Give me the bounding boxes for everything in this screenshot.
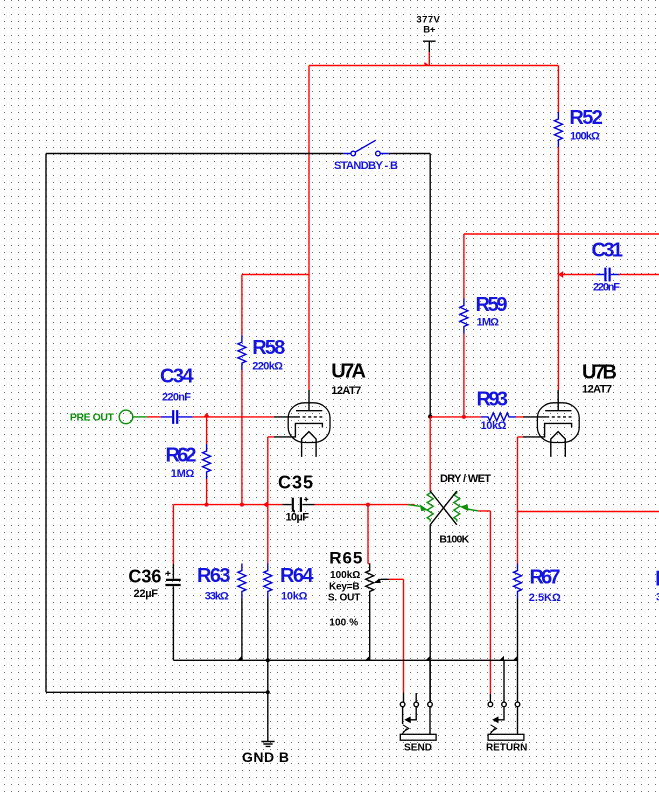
connector SEND jack	[400, 660, 436, 740]
wire U7B out right	[518, 511, 659, 513]
wire standby left	[46, 153, 343, 155]
svg-text:220nF: 220nF	[593, 281, 620, 293]
svg-text:1MΩ: 1MΩ	[477, 317, 500, 329]
svg-text:100kΩ: 100kΩ	[570, 131, 600, 143]
svg-text:C31: C31	[592, 240, 624, 262]
junction R65 bus	[365, 656, 369, 660]
power terminal B+ 377V	[423, 41, 436, 52]
connector RETURN jack	[488, 660, 524, 740]
wire C36 drop	[172, 505, 174, 564]
svg-text:U7A: U7A	[331, 361, 366, 383]
wire R65 riser	[368, 505, 370, 564]
wire R63 bottom	[241, 599, 243, 661]
ground GND B	[261, 692, 274, 746]
svg-text:R52: R52	[569, 107, 603, 129]
junction pot bus	[426, 656, 430, 660]
svg-text:R93: R93	[477, 389, 509, 411]
svg-text:22µF: 22µF	[134, 588, 159, 600]
op-amp U7A tube triode	[274, 390, 330, 457]
wire standby drop to grid node	[429, 154, 431, 417]
junction B+ rail	[425, 62, 430, 66]
svg-text:100kΩ: 100kΩ	[330, 570, 360, 581]
svg-text:C34: C34	[160, 366, 194, 388]
svg-text:DRY / WET: DRY / WET	[440, 473, 491, 485]
wire R52 bottom to U7B plate	[557, 147, 559, 390]
wire R62 bottom	[206, 479, 208, 505]
junction C34 node arrow	[203, 413, 210, 418]
resistor R63	[238, 564, 246, 599]
potentiometer R65	[366, 564, 389, 599]
capacitor C34	[161, 410, 193, 424]
resistor R52	[554, 112, 562, 147]
wire C34 to grid U7A	[193, 416, 274, 418]
svg-text:R58: R58	[252, 337, 285, 359]
wire cathode rail	[173, 504, 414, 506]
svg-text:R59: R59	[476, 294, 508, 316]
svg-text:Key=B: Key=B	[329, 582, 360, 593]
resistor R64	[264, 564, 272, 599]
wire B+ stub	[428, 52, 430, 66]
wire R52 branch down	[557, 66, 559, 113]
resistor R67	[514, 564, 522, 599]
wire R59 bottom to grid node	[463, 334, 465, 417]
resistor partial right edge	[656, 571, 659, 604]
op-amp U7B tube triode	[523, 390, 579, 457]
svg-text:C35: C35	[278, 473, 313, 493]
wire standby right	[389, 153, 430, 155]
svg-text:R64: R64	[280, 565, 314, 587]
junction R64 bus	[266, 658, 270, 662]
junction standby grid node	[428, 414, 432, 418]
svg-text:U7B: U7B	[582, 361, 617, 383]
junction cathode rail arrow	[263, 501, 268, 508]
wire R58 bottom to cathode rail	[241, 370, 243, 505]
svg-text:R67: R67	[530, 567, 561, 589]
wire R65 wiper to SEND	[389, 579, 404, 692]
wire R65 bottom	[369, 599, 371, 661]
resistor R58	[238, 335, 246, 370]
svg-text:STANDBY - B: STANDBY - B	[334, 160, 398, 172]
wire plate U7A to R58 branch	[242, 275, 309, 336]
svg-text:10µF: 10µF	[286, 512, 310, 524]
wire bottom loop	[46, 691, 268, 693]
junction R62 cathode rail	[205, 503, 209, 507]
svg-text:RETURN: RETURN	[486, 742, 527, 753]
svg-text:B100K: B100K	[439, 534, 469, 546]
svg-text:R63: R63	[197, 565, 231, 587]
svg-text:B+: B+	[423, 25, 436, 36]
svg-text:2.5KΩ: 2.5KΩ	[529, 592, 561, 604]
junction R63 bus	[238, 656, 242, 660]
svg-text:10kΩ: 10kΩ	[281, 591, 308, 603]
wire R62 riser	[206, 417, 208, 444]
junction R58 cathode rail	[240, 503, 244, 507]
svg-text:12AT7: 12AT7	[331, 385, 361, 397]
wire R59 riser	[463, 234, 465, 299]
svg-text:100 %: 100 %	[329, 618, 358, 629]
wire C31 branch	[558, 274, 659, 276]
wire pot bottom	[429, 525, 431, 702]
wire U7A plate riser	[308, 66, 310, 391]
junction R67 bus	[513, 656, 517, 660]
capacitor C36	[165, 564, 180, 660]
svg-text:C36: C36	[128, 567, 161, 587]
wire R64 bottom	[267, 599, 269, 661]
wire cathode U7A corner	[268, 437, 274, 505]
wire R64 ground drop	[267, 660, 269, 692]
wire R64 riser	[267, 505, 269, 564]
junction RETURN switch bus	[500, 656, 504, 660]
svg-text:GND B: GND B	[242, 749, 289, 765]
resistor R93	[481, 413, 516, 421]
svg-text:PRE OUT: PRE OUT	[70, 411, 115, 423]
junction ground loop	[266, 690, 270, 694]
wire pot right to RETURN	[478, 511, 490, 694]
wire top B+ rail	[309, 65, 558, 67]
resistor R59	[460, 299, 468, 334]
capacitor C31	[596, 268, 619, 282]
wire mid rail to R59	[464, 233, 659, 235]
svg-text:1MΩ: 1MΩ	[171, 468, 195, 480]
wire ground bus	[173, 659, 517, 661]
wire cathode U7B corner	[518, 437, 524, 564]
junction C35 R65 node	[366, 503, 370, 507]
capacitor C35	[282, 497, 314, 512]
svg-text:220nF: 220nF	[162, 392, 191, 404]
wire pre out to C34	[147, 416, 161, 418]
svg-text:220kΩ: 220kΩ	[252, 360, 283, 372]
wire grid row to U7B	[430, 416, 523, 418]
svg-text:S. OUT: S. OUT	[328, 592, 360, 603]
svg-text:12AT7: 12AT7	[582, 384, 612, 396]
junction R59 grid node	[462, 415, 466, 419]
svg-text:R65: R65	[329, 549, 362, 568]
svg-text:R62: R62	[166, 444, 197, 466]
wire R67 bottom	[517, 599, 519, 703]
junction C31 branch arrow	[558, 271, 563, 278]
svg-text:10kΩ: 10kΩ	[481, 420, 507, 432]
resistor R62	[203, 444, 211, 479]
switch STANDBY - B	[343, 140, 388, 156]
port PRE OUT	[119, 410, 147, 424]
potentiometer DRY / WET crossfade	[408, 417, 478, 525]
svg-text:SEND: SEND	[404, 742, 432, 753]
wire left loop vertical	[45, 154, 47, 693]
svg-text:33kΩ: 33kΩ	[205, 591, 229, 603]
